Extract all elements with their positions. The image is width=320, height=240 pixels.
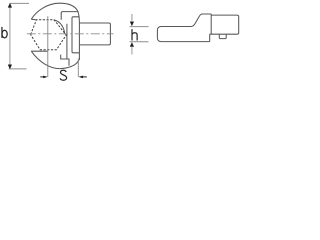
label S (drawn glyph): [60, 70, 67, 80]
dimension h: lower arrowhead (points up): [130, 42, 134, 47]
lower jaw flat: [31, 50, 48, 52]
label h (drawn glyph): [132, 29, 137, 40]
hexagon nut (dashed): [31, 20, 67, 50]
dimension h: lower extension line: [130, 41, 149, 43]
dimension b: upper arrowhead: [8, 3, 12, 8]
side view: crest flat and steep ramp down to shank top: [191, 14, 211, 27]
dimension h: lower arrow tail: [131, 47, 133, 55]
head bottom arc: [31, 51, 79, 68]
square drive nub under head: [219, 34, 226, 38]
head outline: upper arc from jaw tip over crest to right side: [31, 3, 79, 23]
S left arrow (points right): [40, 76, 43, 78]
internal: horizontal y=11.6 and vertical x=61.2 with rounded corner: [61, 12, 78, 20]
label b (drawn glyph): [2, 27, 7, 38]
vertical centerline / S left extension line: [47, 16, 49, 77]
dimension h: upper arrowhead (points down): [130, 22, 134, 27]
bottom notch: [61, 55, 69, 66]
dimension b: top extension line: [10, 2, 29, 4]
side view: shank bar with rounded left end: [157, 27, 209, 42]
side view: head block outline: [210, 15, 239, 41]
internal: tang cross-section outline (vertical x=72 with top/bottom steps): [72, 17, 79, 53]
shank tang block, front view: [79, 23, 110, 45]
horizontal centerline (dash-dot): [27, 33, 114, 35]
dimension b: bottom extension line: [9, 68, 27, 70]
dimension h: upper extension line: [130, 26, 149, 28]
jaw slot back curve: [54, 20, 65, 34]
head right edge (vertical): [78, 23, 80, 60]
S right extension line: [77, 59, 79, 77]
S right arrow (points left): [78, 76, 83, 79]
dimension h: upper arrow tail: [131, 14, 133, 21]
side view: collar front face line (vertical at x=211.2): [210, 14, 212, 34]
dimension b: lower arrowhead: [8, 65, 12, 70]
jaw slot right wall (vertical): [66, 24, 68, 59]
dimension b: vertical dimension line: [9, 4, 11, 69]
upper jaw blunt tip: [31, 18, 36, 21]
